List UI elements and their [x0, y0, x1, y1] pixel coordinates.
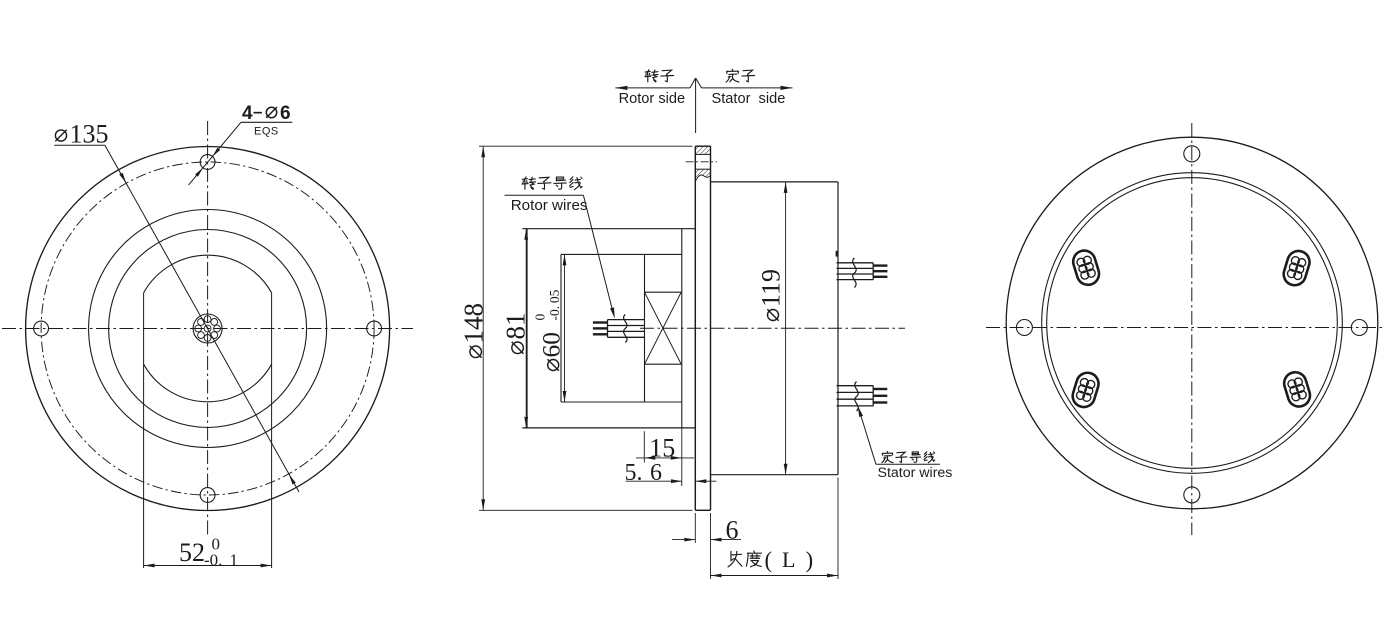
svg-text:1: 1 — [230, 550, 239, 569]
dimension length L extension lines — [711, 478, 839, 580]
svg-text:L: L — [782, 547, 795, 572]
label: dingzi (stator chinese) — [726, 69, 754, 82]
svg-text:52: 52 — [179, 538, 205, 567]
right view: wire exit slot lower-left — [1070, 370, 1101, 410]
right view: bolt hole right — [1351, 320, 1367, 336]
dimension 4-D6 arrow upper — [212, 148, 220, 157]
right view: stator cover inner circle — [1047, 178, 1338, 469]
right view: stator cover outer circle — [1042, 173, 1343, 474]
section view: mounting flange plate D148 — [695, 146, 710, 510]
section view: flange hatch top band — [695, 146, 710, 154]
dimension 52 left arrow — [144, 564, 155, 568]
left view: rotor housing circle D81 — [109, 230, 307, 428]
section view: rotor housing D81 outline — [522, 229, 695, 428]
dimension 52 line — [144, 565, 272, 567]
svg-text:135: 135 — [70, 120, 109, 149]
dimension 52 text with tolerance — [179, 535, 238, 570]
left view: flange outer circle D148 — [26, 147, 390, 511]
dimension D119 text — [757, 269, 786, 321]
left view: rotor hub D60 with 52 flats - bottom arc — [144, 364, 272, 402]
right view: bolt hole top — [1184, 146, 1200, 162]
dimension D60 arrows — [563, 254, 567, 265]
section view: rotor hub D60 outline — [561, 254, 682, 402]
svg-text:-0. 05: -0. 05 — [547, 289, 562, 320]
right view: wire exit slot upper-right — [1281, 248, 1312, 288]
left view: bolt hole right — [367, 321, 382, 336]
section view: bearing (15 wide) with cross — [645, 292, 682, 364]
svg-text:119: 119 — [757, 269, 786, 307]
svg-text:60: 60 — [537, 332, 566, 358]
svg-text:6: 6 — [280, 103, 291, 124]
left view: bolt hole bottom — [200, 488, 215, 503]
dimension D81 text — [500, 313, 530, 354]
svg-text:15: 15 — [649, 433, 675, 462]
section view: flange bolt hole top (section) — [686, 154, 717, 169]
right view: vertical centerline — [1191, 123, 1193, 535]
left view: hub right flat + 52-dim extension line — [271, 293, 273, 568]
svg-text:Rotor wires: Rotor wires — [511, 197, 588, 214]
dimension D148 arrows — [481, 146, 485, 157]
left view: bolt hole left — [34, 321, 49, 336]
rotor wires bundle — [593, 320, 645, 338]
svg-text:6: 6 — [726, 516, 739, 545]
dimension 4-D6 arrow lower — [195, 168, 203, 177]
dimension D119 line — [785, 182, 787, 475]
dimension length L line — [711, 575, 839, 577]
rotor wires leader arrow — [610, 307, 615, 318]
dimension D135 diagonal dimension line — [105, 145, 299, 492]
svg-text:4: 4 — [242, 103, 253, 124]
svg-text:EQS: EQS — [254, 126, 279, 138]
dimension 6 extension lines — [695, 513, 710, 543]
stator body small tab mark — [836, 251, 839, 257]
dimension 4-D6 label — [242, 102, 291, 124]
stator wires lower break mark — [855, 382, 858, 412]
dimension 5.6 lines — [626, 480, 717, 482]
svg-text:Rotor side: Rotor side — [619, 91, 686, 107]
right view: bolt hole bottom — [1184, 487, 1200, 503]
left view: center wire bundle outer circle — [193, 314, 222, 343]
rotor wires label leader — [583, 195, 613, 313]
label: zhuanzi (rotor chinese) — [645, 70, 674, 82]
dimension length L arrows — [711, 574, 722, 578]
left view: horizontal centerline — [2, 328, 413, 330]
stator wires leader arrow — [858, 406, 863, 417]
dimension 15 line — [636, 457, 694, 459]
dimension D148 extension lines — [479, 146, 693, 510]
dimension 4-D6 underline — [241, 121, 292, 123]
svg-text:Stator wires: Stator wires — [878, 465, 953, 481]
rotor side arrow (left) — [615, 86, 627, 90]
svg-text:Stator side: Stator side — [712, 91, 786, 107]
svg-text:148: 148 — [459, 303, 489, 344]
left view: bolt circle D135 (dash-dot) — [41, 162, 374, 495]
rotor wires break mark — [624, 315, 627, 343]
dimension 4-D6 leader line — [189, 122, 241, 185]
dimension D148 line — [482, 146, 484, 510]
label: changdu (L) length — [728, 547, 813, 573]
dimension D60 line — [564, 254, 566, 402]
left view: vertical centerline — [207, 121, 209, 536]
svg-text:81: 81 — [500, 313, 530, 340]
rotor wires label underline — [505, 194, 584, 196]
svg-text:6: 6 — [650, 460, 662, 486]
stator wires lower bundle — [837, 386, 888, 406]
left view: center wire bundle wires — [195, 316, 221, 342]
svg-text:): ) — [806, 548, 814, 573]
dimension D148 text — [459, 303, 489, 358]
dimension 6 lines — [672, 539, 741, 541]
section view: axis centerline — [640, 327, 905, 329]
dimension D135 label — [55, 120, 108, 149]
label: zhuanzi-daoxian (rotor wires chinese) — [522, 177, 582, 190]
dimension D119 arrows — [784, 182, 788, 193]
dimension D135 arrow lower — [289, 474, 296, 485]
left view: hub left flat + 52-dim extension line — [143, 293, 145, 568]
svg-text:-0.: -0. — [204, 550, 222, 569]
right view: horizontal centerline — [986, 327, 1385, 329]
label: dingzi-daoxian (stator wires chinese) — [882, 452, 935, 463]
left view: rotor hub D60 with 52 flats - top arc — [144, 255, 272, 293]
section view: stator body D119 — [711, 182, 839, 475]
svg-text:0: 0 — [533, 314, 548, 321]
stator wires upper break mark — [853, 258, 856, 288]
dimension D81 line — [525, 229, 527, 428]
right view: flange outer circle D148 — [1006, 137, 1378, 509]
stator wires label underline — [876, 463, 940, 465]
svg-text:(: ( — [765, 548, 773, 573]
right view: wire exit slot lower-right — [1281, 370, 1312, 410]
dimension D60 text with tolerance — [533, 289, 566, 370]
dimension 15 extension lines — [644, 428, 682, 486]
right view: bolt hole left — [1016, 320, 1032, 336]
dimension D135 leader underline — [54, 144, 105, 146]
dimension 52 right arrow — [261, 564, 272, 568]
right view: wire exit slot upper-left — [1070, 248, 1101, 288]
dimension D135 arrow upper — [119, 173, 126, 184]
dimension 15 arrows — [644, 456, 655, 460]
dimension 5.6 arrows — [671, 479, 682, 483]
dimension 6 arrows — [684, 538, 695, 542]
svg-text:–: – — [253, 102, 262, 121]
left view: bolt hole top — [200, 155, 215, 170]
stator wires label leader — [860, 412, 876, 465]
svg-text:5.: 5. — [625, 460, 643, 486]
stator wires upper bundle — [837, 263, 888, 280]
stator side arrow (right) — [781, 86, 793, 90]
left view: recess circle — [89, 210, 327, 448]
dimension D81 arrows — [524, 229, 528, 240]
rotor/stator side annotation lines — [615, 78, 792, 133]
